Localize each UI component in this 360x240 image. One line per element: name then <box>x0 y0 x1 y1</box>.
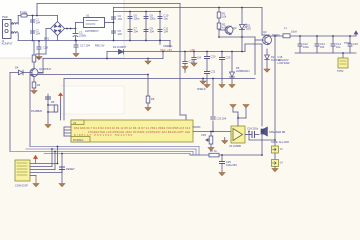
capacitor C19 <box>183 52 187 73</box>
svg-text:CON-ICSP: CON-ICSP <box>15 184 28 188</box>
ground <box>219 85 225 88</box>
ground <box>219 173 225 176</box>
capacitor C21 <box>205 72 210 85</box>
capacitor C9 <box>144 30 148 32</box>
wire dc+ <box>65 28 76 30</box>
svg-text:10u: 10u <box>336 45 341 49</box>
svg-text:LM7805CT: LM7805CT <box>85 29 99 33</box>
ground <box>272 167 278 172</box>
svg-text:RESET: RESET <box>66 167 75 171</box>
capacitor C6 <box>128 12 132 41</box>
svg-text:DISPLAY PCF1602 HD44780: DISPLAY PCF1602 HD44780 <box>74 134 133 137</box>
regulator U1 <box>76 18 114 28</box>
ground opamp <box>222 138 228 144</box>
ground <box>145 59 151 65</box>
output rail <box>269 35 357 37</box>
ground <box>182 67 188 70</box>
bottom signal wire <box>190 154 262 156</box>
speaker LS1 <box>261 127 267 136</box>
capacitor C12 <box>298 36 302 53</box>
ground rail bottom right <box>295 52 356 54</box>
ground <box>243 105 249 108</box>
capacitor C8 <box>144 12 148 41</box>
long signal wire B <box>64 79 255 132</box>
ground <box>45 125 51 128</box>
svg-text:RS4 EN6 D0.7 D1.8 D2.9 D3.10 D: RS4 EN6 D0.7 D1.8 D2.9 D3.10 D4.11 D5.12… <box>74 127 191 130</box>
test point TP1 <box>338 53 348 68</box>
svg-text:104: 104 <box>150 30 155 34</box>
temp sensor U2 <box>46 94 58 124</box>
svg-text:UNREG: UNREG <box>163 44 172 48</box>
svg-text:CHARACTER LCD MODULE 16X2 PC16: CHARACTER LCD MODULE 16X2 PC1602F CONTRA… <box>88 131 190 134</box>
jack J4 <box>272 153 279 167</box>
capacitor C1 <box>31 20 35 22</box>
svg-text:10u: 10u <box>164 17 169 21</box>
svg-text:U1: U1 <box>86 14 90 18</box>
svg-text:REG 5V: REG 5V <box>95 44 105 48</box>
capacitor C23 <box>211 116 216 121</box>
svg-text:LM385/ADJ: LM385/ADJ <box>236 69 250 73</box>
wire vertical x180 long <box>179 4 181 116</box>
ground <box>204 85 210 88</box>
resistor R6 <box>146 75 150 108</box>
svg-text:104: 104 <box>164 30 169 34</box>
bus wire 4 <box>44 154 190 156</box>
svg-text:Q3: Q3 <box>263 30 267 34</box>
svg-text:TP9V: TP9V <box>344 41 351 45</box>
svg-text:LOW ESR: LOW ESR <box>278 61 290 65</box>
svg-text:TIP41C: TIP41C <box>272 34 280 37</box>
junction <box>32 15 34 17</box>
capacitor C25 <box>220 155 225 172</box>
wire into LCD <box>180 115 186 120</box>
svg-text:ACINPUT: ACINPUT <box>2 43 13 46</box>
fuse F1 <box>18 14 57 17</box>
diode D4 <box>10 70 32 75</box>
wire sensor vcc <box>60 99 62 120</box>
capacitor C2 <box>31 31 35 33</box>
ground <box>230 105 236 108</box>
connector J1 <box>3 20 14 39</box>
svg-text:104: 104 <box>36 21 41 25</box>
ground <box>33 176 39 187</box>
capacitor C24 <box>250 132 259 138</box>
svg-text:10uH: 10uH <box>291 31 297 34</box>
wire speaker down <box>261 134 263 155</box>
svg-text:C17 104: C17 104 <box>80 44 90 48</box>
svg-text:C23 104: C23 104 <box>217 117 227 121</box>
LCD module DS1 <box>71 120 193 142</box>
resistor R1 <box>217 8 221 38</box>
wire y37 <box>219 36 255 38</box>
loop wire left <box>39 52 164 74</box>
svg-text:D4: D4 <box>15 66 19 70</box>
svg-text:PWR: PWR <box>2 16 8 19</box>
diode D3 <box>119 50 124 55</box>
power flag <box>147 90 149 92</box>
bridge rectifier BR1 <box>51 16 65 41</box>
bus wire 1 <box>30 147 199 156</box>
LCD right pins <box>193 127 231 132</box>
capacitor C18 <box>37 41 41 56</box>
resistor R2 <box>217 23 221 29</box>
svg-text:C24 220u: C24 220u <box>247 127 259 131</box>
svg-text:C18: C18 <box>43 46 48 50</box>
power flag <box>34 156 38 164</box>
wire gnd rail <box>18 40 170 42</box>
ground <box>59 184 65 187</box>
capacitor C4 <box>112 17 116 19</box>
jack J3 <box>272 140 279 153</box>
ground <box>191 63 197 66</box>
svg-text:100u: 100u <box>303 45 309 49</box>
capacitor C17 <box>74 41 78 54</box>
resistor R4 <box>32 82 36 88</box>
junction <box>32 40 34 42</box>
ground <box>73 54 79 57</box>
capacitor C13 <box>315 36 319 53</box>
wire vertical x33 <box>32 16 34 41</box>
capacitor C20 <box>205 52 210 72</box>
rail +9V <box>114 8 263 41</box>
svg-text:U3 LM386: U3 LM386 <box>229 144 242 148</box>
bus wire 3 <box>10 152 193 156</box>
svg-text:100u/16V: 100u/16V <box>226 163 237 167</box>
ground <box>200 79 206 85</box>
rail top unregulated <box>37 4 180 16</box>
svg-text:100u: 100u <box>150 17 156 21</box>
svg-text:R3: R3 <box>37 56 41 60</box>
svg-text:PC1602-L: PC1602-L <box>73 139 84 142</box>
transistor Q2 <box>219 26 233 35</box>
capacitor C14 <box>331 36 335 53</box>
ICSP connector J2 <box>15 160 30 181</box>
svg-text:R5: R5 <box>51 100 55 104</box>
svg-text:NOTE: ALL GND: NOTE: ALL GND <box>271 141 289 144</box>
LCD left pins <box>64 127 71 136</box>
inductor L1 <box>283 34 290 38</box>
ground <box>145 108 151 111</box>
svg-text:104: 104 <box>134 30 139 34</box>
ground <box>229 85 235 88</box>
feedback wire <box>274 36 276 140</box>
svg-text:Q2: Q2 <box>233 26 237 30</box>
wire ac2 loop <box>36 29 51 55</box>
resistor R7 <box>209 153 219 157</box>
svg-text:104: 104 <box>320 45 325 49</box>
svg-text:104: 104 <box>118 17 123 21</box>
svg-text:Fuse: Fuse <box>20 11 27 15</box>
svg-text:2200u: 2200u <box>79 34 87 38</box>
transistor Q1 <box>30 41 43 83</box>
+5V rail middle <box>107 44 262 126</box>
svg-text:D3 1N4007: D3 1N4007 <box>113 45 127 49</box>
svg-text:100u: 100u <box>134 17 140 21</box>
svg-text:C20: C20 <box>211 55 216 59</box>
reference D5 <box>230 52 235 85</box>
svg-text:10k: 10k <box>222 15 227 19</box>
svg-text:Q1 BC547: Q1 BC547 <box>39 67 52 71</box>
svg-text:BR1: BR1 <box>44 37 50 41</box>
svg-text:LED: LED <box>246 27 251 31</box>
zener D2 <box>265 49 270 69</box>
ground <box>208 148 214 151</box>
svg-text:VCC_+5V: VCC_+5V <box>160 48 172 52</box>
capacitor C15 <box>348 36 352 53</box>
potentiometer VR1 <box>206 132 213 148</box>
transformer T1 <box>11 16 18 41</box>
note area box <box>61 86 124 114</box>
connector pin wires <box>30 147 62 176</box>
svg-text:C22: C22 <box>226 56 231 60</box>
ground <box>31 91 37 94</box>
svg-text:C15: C15 <box>353 42 358 46</box>
ground <box>36 57 42 60</box>
svg-text:TP5V: TP5V <box>337 69 344 73</box>
svg-text:R6: R6 <box>151 97 155 101</box>
capacitor C5 <box>112 31 116 33</box>
svg-text:104: 104 <box>118 32 123 36</box>
svg-text:104: 104 <box>197 57 202 60</box>
op-amp U3 <box>231 115 250 143</box>
capacitor C3 electrolytic <box>73 23 78 41</box>
svg-text:SHIELD: SHIELD <box>197 88 206 91</box>
svg-text:VR1: VR1 <box>201 133 207 137</box>
ground <box>264 69 270 72</box>
transistor Q3 <box>255 8 272 45</box>
capacitor C27 <box>192 52 196 64</box>
svg-text:R7 1k: R7 1k <box>210 149 217 153</box>
wire vertical x10 <box>9 73 11 152</box>
capacitor C22 <box>220 52 225 85</box>
bus wire 2 <box>26 149 196 155</box>
switch S1 <box>60 167 65 183</box>
title area box <box>0 0 124 58</box>
capacitor C7 <box>128 30 132 32</box>
capacitor C11 <box>158 30 162 32</box>
svg-text:104: 104 <box>36 32 41 36</box>
power flag <box>59 93 63 99</box>
svg-text:DS18B20: DS18B20 <box>31 109 43 113</box>
rail mid <box>114 11 161 13</box>
svg-text:SPEAKER 8R: SPEAKER 8R <box>269 130 285 134</box>
svg-text:C21: C21 <box>211 70 216 74</box>
power port +9V <box>354 31 357 36</box>
wire net stub <box>159 41 161 45</box>
wire jack feed <box>249 132 275 141</box>
long signal wire A <box>30 40 255 147</box>
svg-text:R4: R4 <box>37 83 41 87</box>
opamp top network <box>233 106 246 118</box>
wire vertical x170 <box>169 41 171 48</box>
diode D1 LED <box>240 8 245 52</box>
capacitor C10 <box>158 12 162 41</box>
